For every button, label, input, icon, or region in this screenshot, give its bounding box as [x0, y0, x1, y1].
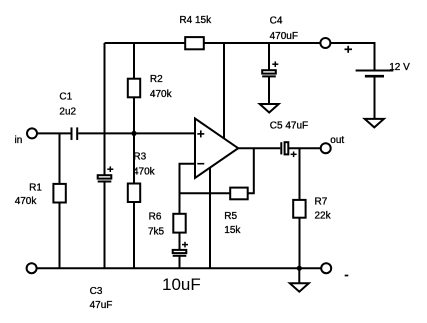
ground (C4) [260, 104, 279, 113]
wire left drop lower (C3 branch) [104, 182, 106, 269]
svg-text:out: out [330, 135, 344, 146]
terminal +12V [320, 38, 330, 48]
svg-text:10uF: 10uF [162, 275, 201, 294]
wire C4 branch upper [268, 43, 270, 70]
svg-text:15k: 15k [224, 225, 241, 236]
svg-text:47uF: 47uF [90, 300, 113, 311]
svg-text:470uF: 470uF [270, 31, 298, 42]
capacitor C5 [281, 142, 296, 157]
resistor R6 [173, 214, 185, 233]
wire R3 branch lower [133, 202, 135, 268]
svg-text:470k: 470k [150, 89, 173, 100]
wire C5 to out terminal [288, 147, 320, 149]
wire R7 branch lower [299, 218, 301, 269]
wire top rail to battery [330, 43, 374, 71]
svg-text:R2: R2 [150, 74, 163, 85]
resistor R2 [128, 79, 140, 98]
svg-text:12 V: 12 V [389, 62, 410, 73]
svg-text:2u2: 2u2 [59, 106, 76, 117]
terminal ground-left [27, 263, 37, 273]
wire top rail left segment [105, 42, 186, 44]
plus sign supply terminal [345, 46, 353, 53]
capacitor C3 [98, 166, 114, 181]
svg-text:C1: C1 [59, 92, 72, 103]
svg-text:R5: R5 [224, 211, 237, 222]
node junction input bias [131, 131, 136, 136]
wire battery to ground [374, 76, 376, 119]
wire R1 branch lower [59, 203, 61, 269]
wire left drop upper (C3 branch) [104, 43, 106, 175]
op-amp U1 [195, 119, 238, 179]
minus sign supply terminal [345, 275, 349, 277]
svg-text:22k: 22k [315, 211, 332, 222]
svg-text:R4 15k: R4 15k [179, 15, 212, 26]
wire op-amp V+ drop [223, 43, 225, 139]
wire inverting input [180, 164, 196, 214]
wire C6 cap to ground rail [179, 256, 181, 269]
ground (battery) [365, 119, 384, 128]
svg-text:C4: C4 [270, 16, 283, 27]
svg-text:R7: R7 [315, 197, 328, 208]
wire bottom rail [37, 267, 322, 269]
capacitor C1 [72, 127, 78, 140]
svg-text:R1: R1 [29, 182, 42, 193]
battery 12V [356, 71, 394, 77]
wire feedback R5 to riser [248, 148, 254, 193]
resistor R1 [53, 184, 65, 203]
wire R7 branch upper [299, 148, 301, 200]
svg-text:470k: 470k [15, 196, 38, 207]
svg-text:470k: 470k [133, 166, 156, 177]
resistor R3 [128, 184, 140, 203]
svg-text:R6: R6 [149, 212, 162, 223]
svg-text:R3: R3 [133, 152, 146, 163]
terminal in [27, 128, 37, 138]
terminal minus [321, 263, 331, 273]
resistor R5 [230, 188, 248, 200]
resistor R7 [293, 200, 305, 218]
resistor R4 [185, 37, 204, 49]
capacitor C4 [262, 61, 278, 76]
node junction ground rail [297, 266, 302, 271]
wire R2 branch upper [133, 43, 135, 79]
svg-text:7k5: 7k5 [148, 226, 165, 237]
svg-text:in: in [15, 135, 23, 146]
ground (bottom rail) [290, 283, 309, 292]
wire op-amp output to C5 [238, 147, 280, 149]
capacitor C6 (10uF below R6) [173, 242, 188, 256]
wire top rail right segment [204, 42, 321, 44]
svg-text:C3: C3 [90, 286, 103, 297]
wire R6 to C6 cap [179, 233, 181, 250]
wire input from C1 to op-amp [78, 132, 195, 134]
wire R3 branch upper [133, 133, 135, 183]
svg-text:C5 47uF: C5 47uF [270, 120, 308, 131]
wire feedback horizontal [180, 192, 231, 194]
wire op-amp V- to ground rail [209, 168, 211, 269]
wire input from terminal to C1 [37, 132, 71, 134]
wire C4 to ground [268, 77, 270, 104]
wire R2 branch lower [133, 97, 135, 133]
wire R1 branch upper [59, 133, 61, 184]
terminal out [321, 143, 331, 153]
wire ground stub bottom right [298, 268, 300, 283]
